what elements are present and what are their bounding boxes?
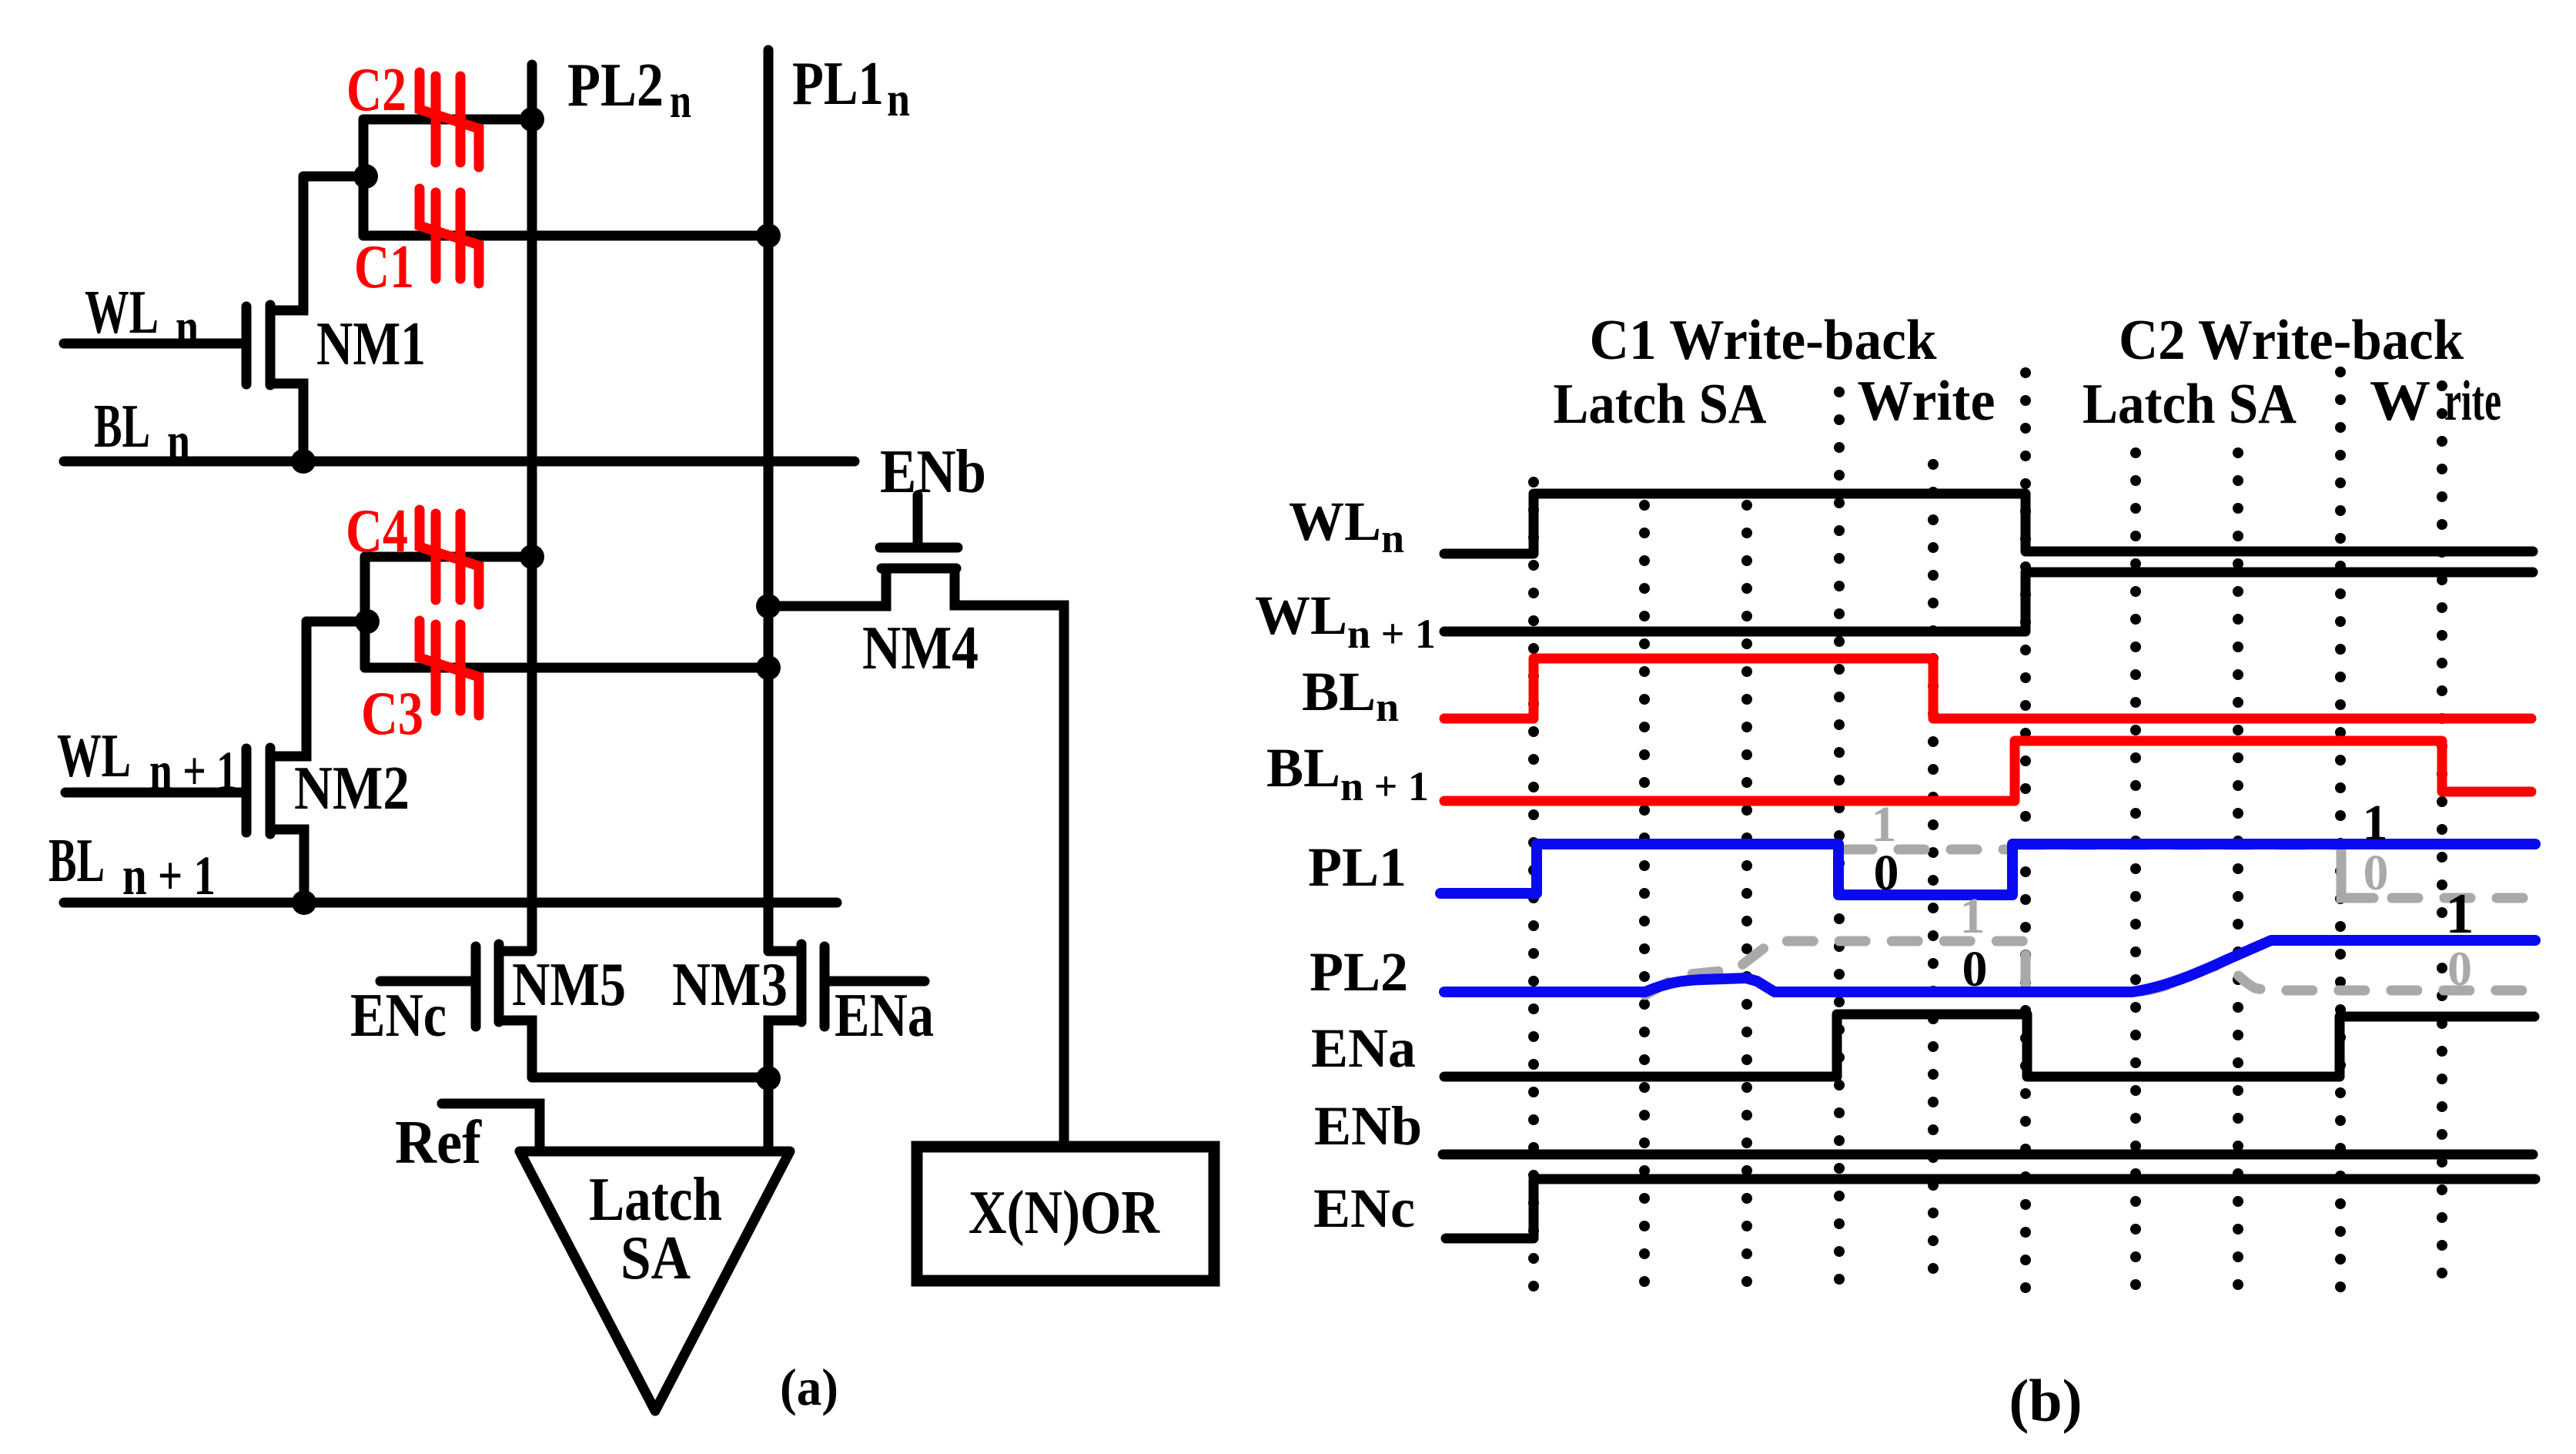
svg-text:0: 0 — [1962, 941, 1988, 997]
wire BL_n+1 — [64, 898, 837, 908]
signal BLn+1 — [1444, 741, 2531, 801]
wire cell stub vertical — [359, 119, 369, 236]
svg-text:PL1: PL1 — [1308, 836, 1407, 898]
wire NM2 drain horizontal — [306, 617, 367, 627]
gridline t4 — [1834, 392, 1845, 1292]
wire C2 top lead — [363, 115, 532, 125]
node PL1/C1 — [756, 223, 781, 248]
svg-text:rite: rite — [2444, 370, 2501, 433]
transistor NM3 — [768, 946, 801, 956]
gridline t7 — [2130, 453, 2141, 1292]
gridline t2 — [1639, 505, 1650, 1292]
svg-text:1: 1 — [1960, 888, 1986, 944]
svg-text:Write: Write — [1858, 370, 1996, 433]
svg-text:ENc: ENc — [350, 982, 447, 1050]
gridline t10 — [2437, 386, 2447, 1292]
gridline t5 — [1928, 464, 1939, 1292]
gridline t8 — [2233, 453, 2243, 1292]
svg-text:NM1: NM1 — [316, 310, 426, 378]
svg-text:PL2: PL2 — [567, 52, 664, 119]
svg-text:PL1: PL1 — [792, 50, 884, 118]
transistor NM2 — [65, 788, 242, 798]
svg-text:WL: WL — [57, 722, 131, 790]
svg-text:n + 1: n + 1 — [149, 740, 237, 802]
node BLn junction — [291, 449, 316, 474]
signal PL2 — [1444, 940, 2535, 992]
svg-text:Latch: Latch — [589, 1166, 722, 1234]
op-amp latch SA triangle — [520, 1151, 790, 1411]
signal WLn+1 — [1444, 572, 2533, 632]
signal ENb — [1443, 1150, 2533, 1160]
node PL1/C3 — [756, 655, 781, 680]
wire C1 lead to PL1 — [363, 231, 768, 241]
node PL2/C4 — [520, 544, 544, 569]
svg-text:ENb: ENb — [1314, 1095, 1422, 1157]
svg-text:NM3: NM3 — [672, 951, 788, 1019]
gridline t1 — [1528, 482, 1539, 1292]
X(N)OR box — [917, 1147, 1214, 1281]
svg-text:C1 Write-back: C1 Write-back — [1590, 309, 1938, 372]
node PL1/NM4 — [756, 594, 781, 618]
node SA input — [756, 1066, 781, 1090]
node BLn+1 junction — [292, 890, 316, 915]
svg-text:X(N)OR: X(N)OR — [969, 1179, 1160, 1247]
svg-text:C2: C2 — [346, 56, 406, 124]
svg-text:BL: BL — [49, 827, 105, 895]
svg-text:SA: SA — [621, 1225, 691, 1292]
svg-text:ENa: ENa — [1311, 1017, 1416, 1079]
transistor NM1 — [64, 339, 242, 349]
wire C3 lead to PL1 — [365, 663, 768, 673]
signal ENc — [1446, 1179, 2535, 1238]
svg-text:n + 1: n + 1 — [122, 845, 216, 906]
svg-text:Latch SA: Latch SA — [1554, 373, 1767, 436]
wire NM1 drain horizontal — [303, 172, 366, 182]
svg-text:ENb: ENb — [880, 438, 986, 506]
wire SA source bus — [532, 1073, 768, 1083]
wire C4 lead — [365, 552, 532, 562]
capacitor C4 — [420, 510, 479, 605]
wire BL_n — [64, 457, 855, 467]
wire Ref — [442, 1104, 540, 1151]
signal PL1 gray alternative — [1846, 845, 2533, 898]
signal ENa — [1444, 1014, 2534, 1077]
svg-text:n: n — [167, 410, 190, 472]
svg-text:1: 1 — [2363, 795, 2388, 851]
svg-text:C4: C4 — [346, 498, 408, 565]
signal PL2 gray alternative — [1645, 941, 2533, 995]
signal BLn — [1444, 658, 2531, 719]
wire PL2 vertical — [527, 65, 537, 951]
node lower cell junction — [355, 609, 380, 634]
svg-text:1: 1 — [2446, 883, 2474, 946]
svg-text:C3: C3 — [361, 680, 423, 748]
svg-text:BL: BL — [94, 393, 150, 461]
svg-text:n: n — [176, 296, 199, 358]
svg-text:Ref: Ref — [395, 1109, 482, 1177]
signal WLn — [1444, 494, 2533, 554]
wire PL1 vertical — [764, 50, 774, 951]
svg-text:ENa: ENa — [835, 982, 934, 1050]
dotted grid lines — [1534, 372, 2442, 1292]
svg-text:(b): (b) — [2009, 1367, 2082, 1434]
transistor NM5 — [499, 946, 532, 956]
svg-text:W: W — [2370, 370, 2430, 433]
node A upper cell — [353, 164, 378, 189]
gridline t9 — [2335, 372, 2346, 1292]
node PL2/C2 — [520, 107, 544, 132]
signal PL1 — [1440, 844, 2535, 895]
capacitor C2 — [420, 72, 479, 167]
svg-text:ENc: ENc — [1313, 1178, 1415, 1239]
gridline t3 — [1741, 505, 1752, 1292]
svg-text:Latch SA: Latch SA — [2083, 373, 2297, 436]
svg-text:(a): (a) — [780, 1358, 838, 1416]
svg-text:NM2: NM2 — [294, 755, 410, 822]
svg-text:NM5: NM5 — [512, 951, 626, 1019]
svg-text:WL: WL — [85, 279, 159, 347]
capacitor C3 — [420, 621, 479, 715]
svg-text:0: 0 — [1874, 845, 1899, 901]
svg-text:C2 Write-back: C2 Write-back — [2119, 309, 2464, 372]
svg-text:0: 0 — [2364, 845, 2389, 901]
svg-text:C1: C1 — [354, 233, 414, 301]
svg-text:n: n — [670, 73, 691, 128]
capacitor C1 — [420, 189, 479, 283]
svg-text:PL2: PL2 — [1310, 941, 1408, 1003]
svg-text:0: 0 — [2447, 941, 2472, 996]
wire lower cell stub — [360, 557, 370, 668]
gridline t6 — [2020, 373, 2031, 1292]
svg-text:NM4: NM4 — [862, 615, 979, 682]
svg-text:n: n — [887, 72, 910, 126]
transistor NM4 — [913, 495, 923, 543]
